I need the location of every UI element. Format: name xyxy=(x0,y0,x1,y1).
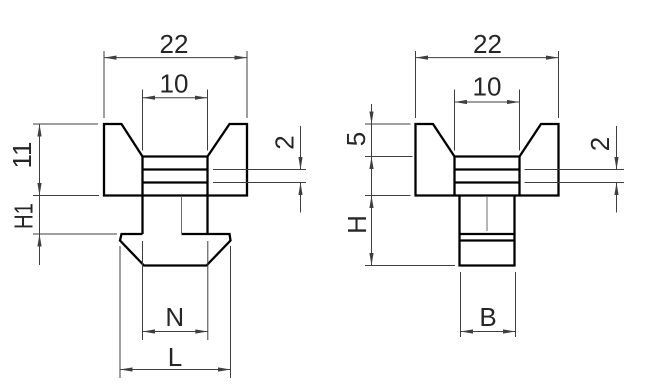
right dim 2 extension lines xyxy=(525,170,625,183)
right view: nut body outline xyxy=(416,124,559,196)
right dim B line xyxy=(461,329,516,333)
left dim 22 line xyxy=(104,56,247,60)
right dim 5/H extension lines xyxy=(365,124,455,266)
left view: hammer foot outline xyxy=(120,234,231,266)
left dim 22 text xyxy=(160,29,189,59)
right dim 22 text xyxy=(473,29,502,59)
svg-text:H: H xyxy=(342,215,372,234)
right dim 10 line xyxy=(455,100,520,104)
left view: neck inner thin edge xyxy=(181,196,183,233)
svg-text:22: 22 xyxy=(473,29,502,59)
left dim 2 line xyxy=(298,126,302,213)
left dim L text xyxy=(168,342,182,372)
left view: nut body outline xyxy=(104,124,247,196)
left dim H1 text xyxy=(9,203,39,229)
svg-text:B: B xyxy=(479,302,496,332)
svg-text:L: L xyxy=(168,342,182,372)
left view: serration groove lines xyxy=(143,170,208,183)
right dim H text xyxy=(342,215,372,234)
right dim 22 line xyxy=(416,56,559,60)
right dim B extension lines xyxy=(461,272,516,337)
svg-text:N: N xyxy=(165,302,184,332)
right view: centre thin line xyxy=(486,196,488,231)
left dim N extension lines xyxy=(143,241,208,340)
left dim 11/H1 extension lines xyxy=(33,124,117,234)
right dim 2 text xyxy=(585,137,615,151)
right view: foot block chamfer lines xyxy=(460,234,515,241)
right dim B text xyxy=(479,302,496,332)
right view: plateau side edges xyxy=(455,157,520,196)
left dim 2 extension lines xyxy=(213,170,306,183)
right view: serration groove lines xyxy=(455,170,520,183)
left dim 11 text xyxy=(7,142,37,169)
svg-text:10: 10 xyxy=(160,69,189,99)
right dim 22 extension lines xyxy=(416,51,559,118)
right dim 5 text xyxy=(341,132,371,146)
right dim 2 line xyxy=(614,126,618,213)
svg-text:11: 11 xyxy=(7,142,37,169)
right view: foot block outline xyxy=(460,196,515,266)
right dim 10 extension lines xyxy=(455,90,520,151)
left dim N text xyxy=(165,302,184,332)
right dim 10 text xyxy=(473,72,502,102)
svg-text:H1: H1 xyxy=(9,203,39,229)
left dim N line xyxy=(143,329,208,333)
left dim L extension lines xyxy=(120,246,231,378)
left view: neck edges xyxy=(143,196,208,235)
left dim 10 line xyxy=(143,96,208,100)
svg-text:2: 2 xyxy=(270,135,300,149)
svg-text:10: 10 xyxy=(473,72,502,102)
left dim 11/H1 vertical line xyxy=(37,124,41,265)
svg-text:22: 22 xyxy=(160,29,189,59)
svg-text:5: 5 xyxy=(341,132,371,146)
left dim 22 extension lines xyxy=(104,51,247,118)
left dim 2 text xyxy=(270,135,300,149)
left dim 10 extension lines xyxy=(143,90,208,151)
left view: plateau side edges xyxy=(143,157,208,196)
left dim 10 text xyxy=(160,69,189,99)
svg-text:2: 2 xyxy=(585,137,615,151)
left dim L line xyxy=(120,367,231,371)
right dim 5/H vertical line xyxy=(369,104,373,266)
